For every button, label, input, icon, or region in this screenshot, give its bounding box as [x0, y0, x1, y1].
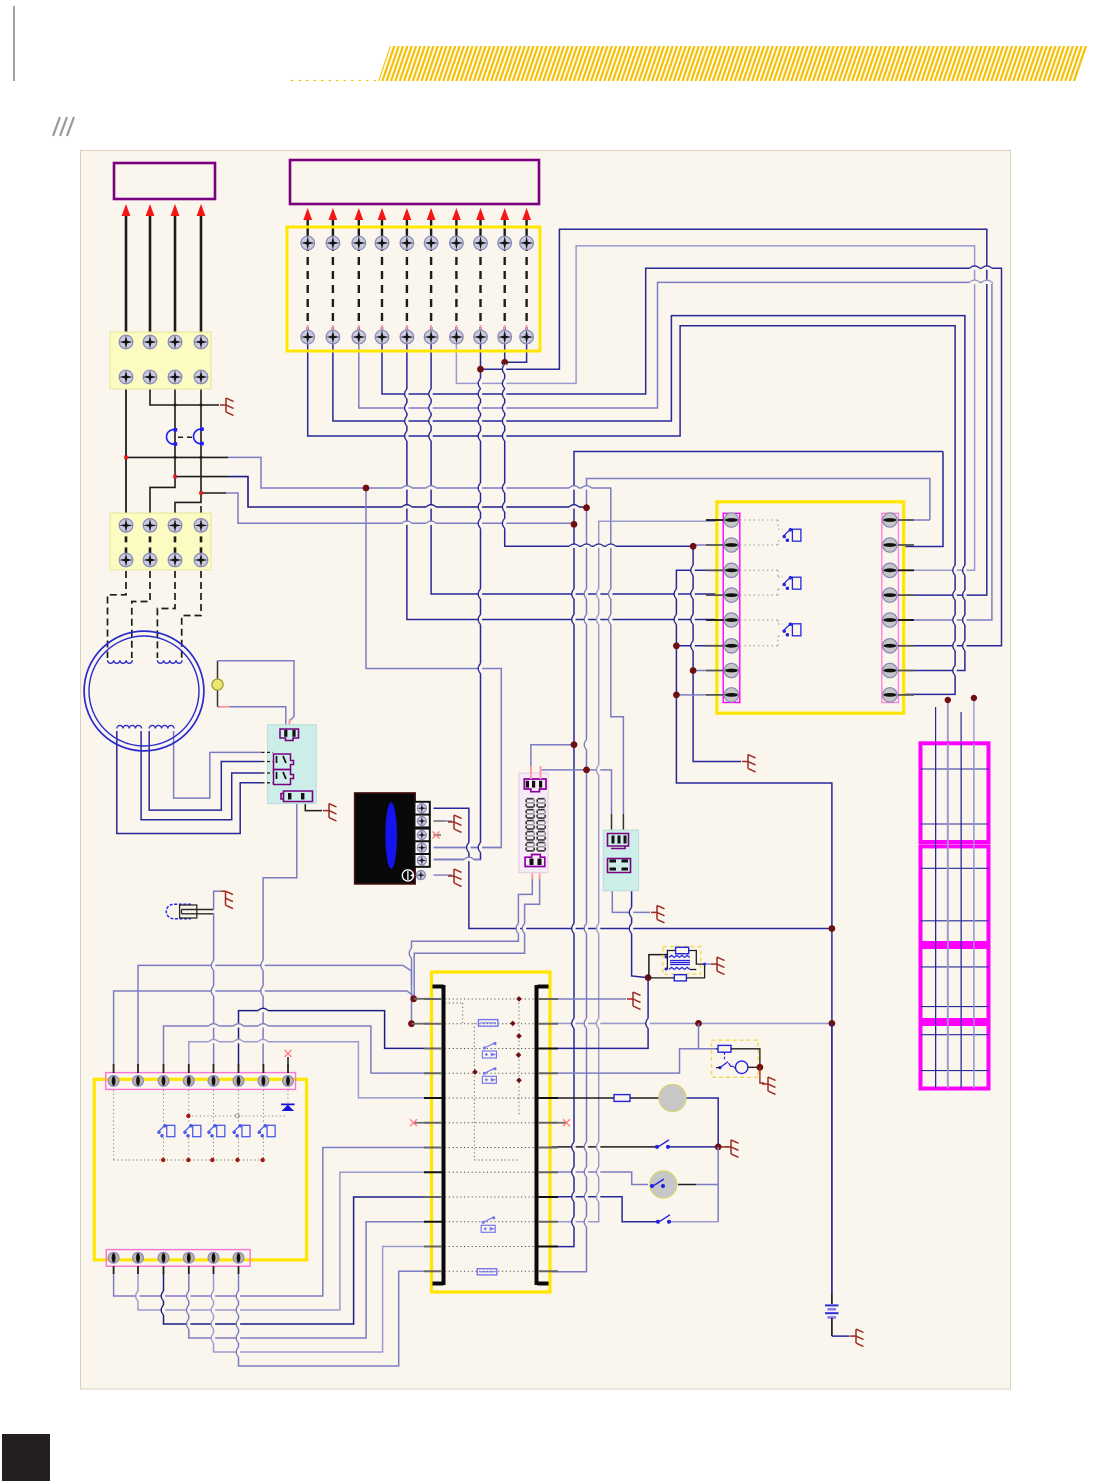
ECU right header bar — [537, 985, 549, 1285]
wire: bus 928 from LCD pin1 — [434, 808, 832, 928]
display top connector — [524, 779, 546, 792]
junction bus1023 horn tap — [695, 1020, 702, 1027]
stator coil top-right — [157, 660, 182, 663]
junction strip1 pin4 tap — [199, 491, 203, 495]
ground G9 — [722, 1146, 729, 1148]
junction relay pin8 node — [673, 692, 680, 699]
junction ECU row1 node — [410, 995, 417, 1002]
wire: strip1 pin3 leg — [150, 377, 175, 525]
wire: node bus A y457 — [126, 456, 228, 458]
wire: bottom box pin3 to ECU row4 — [164, 1026, 433, 1073]
wire: LCD feed riser x367 — [366, 488, 501, 848]
ground G3 — [448, 815, 462, 832]
relay box K1 — [717, 502, 904, 713]
ECU dotted matrix — [445, 999, 536, 1271]
display top leads — [530, 766, 532, 779]
wire: top box pin8 riser — [434, 343, 481, 860]
wire: LCD pin2 ground lead — [434, 820, 446, 822]
wire: T1 output to ground — [705, 963, 711, 965]
header hatch band — [378, 46, 1099, 81]
ground G2 — [742, 755, 756, 772]
ground G8 — [651, 905, 665, 922]
wire: cyan block2 to ignition node — [632, 890, 649, 978]
wire: ECU right row8 dimmer branch — [551, 1172, 648, 1185]
wire: dimmer link down — [717, 1147, 719, 1222]
stator coil bottom-left — [117, 725, 142, 728]
junction ticks strip1 column — [174, 404, 203, 459]
horn switch — [719, 1052, 734, 1068]
headlamp B1 — [659, 1084, 686, 1111]
wire: display pin1 link to V1 — [531, 745, 574, 779]
dimmer lamp B2 — [650, 1171, 677, 1198]
wire: pickup coil loop — [217, 661, 219, 679]
wire: strip2 pin4 stub — [200, 506, 202, 525]
wire: CN1 dashed link — [178, 436, 196, 438]
K1 relay 1 — [783, 529, 801, 542]
wire: bottom box pin2 to ECU — [138, 965, 412, 1066]
nc mark ECU right row6 — [563, 1119, 570, 1126]
arrowheads middle header — [303, 208, 531, 220]
wire: relay pin2 to ground chain x693 — [693, 544, 717, 546]
wire: bottom box pin4 to ECU row5 — [189, 1042, 432, 1098]
wire: strip1 pin4 leg — [175, 377, 201, 525]
wire: horn tap drop — [698, 1023, 700, 1048]
wire: ECU row2 stub — [412, 1023, 433, 1025]
junction ECU row2 node — [408, 1020, 415, 1027]
T1 ballast resistor — [648, 977, 674, 979]
LCD adjuster icon — [402, 870, 413, 881]
wire: bottom box pin8 stub — [287, 1057, 289, 1066]
wire: bus 1023 from ECU — [551, 1022, 832, 1024]
ground G1 — [220, 398, 234, 415]
header box middle — [290, 160, 539, 204]
alternator M1 — [84, 631, 204, 751]
junction table feeds — [945, 695, 978, 703]
wire: ECU right row9 to dip switch — [551, 1197, 657, 1222]
CN-B lower connector — [608, 859, 631, 873]
ground G6 — [221, 891, 233, 908]
regulator lead dashes — [262, 752, 274, 782]
junction bus1023 battery riser — [829, 1020, 836, 1027]
wire: LCD pin4 lead — [434, 847, 502, 849]
wire: ECU right row6 nc stub — [551, 1122, 566, 1124]
header slashes — [53, 117, 74, 136]
wire: bus A continuation y488 — [366, 488, 623, 814]
nc mark LCD pin3 — [433, 832, 440, 839]
control unit ECU — [432, 972, 551, 1292]
junction lamp node — [715, 1144, 722, 1151]
stator coil top-left — [108, 660, 133, 663]
junction bus928 battery riser — [829, 925, 836, 932]
ECU left header bar — [433, 985, 444, 1285]
ground G4 — [448, 869, 462, 886]
display digits — [526, 799, 545, 851]
junction relay pin6 node — [673, 642, 680, 649]
wire: node bus B y477 — [175, 476, 228, 478]
wire: LCD pin6 ground lead — [434, 874, 453, 876]
wire: bottom box pin1 to ECU — [114, 991, 414, 1066]
wire: strip1 pin1 to strip2 pin1 — [125, 377, 127, 525]
wire: ECU right row7 switch to ground node — [551, 1146, 656, 1148]
wire: top box pin6 run to relay pin4 — [431, 343, 717, 594]
junction relay pin2 node — [690, 543, 697, 550]
wire: cyan block2 left lead to ground — [612, 890, 650, 912]
wire: stator leads to regulator block — [117, 731, 262, 834]
CN-B upper connector — [608, 834, 629, 849]
wire: ECU right row3 to ignition node — [551, 978, 648, 1049]
J1 node dots — [161, 1114, 265, 1163]
stator coil bottom-right — [149, 725, 174, 728]
terminal box top middle — [287, 227, 540, 351]
K1 relay 2 — [783, 577, 801, 590]
display bottom connector — [525, 855, 545, 867]
junction bus A x367 — [363, 485, 370, 492]
ground G12 — [850, 1329, 864, 1346]
battery BT1 — [831, 1294, 833, 1305]
page margin rule — [13, 6, 15, 81]
ground G7 — [627, 992, 641, 1009]
wire: V1 long riser x574 — [551, 452, 943, 1247]
wire: V3 long riser x598 — [551, 521, 717, 1222]
resistor R-lamp — [614, 1095, 630, 1102]
wire hops — [136, 266, 992, 1357]
junction display pin2 node — [583, 767, 590, 774]
wire: ECU row1 stub — [414, 998, 432, 1000]
ground G10 — [711, 957, 725, 974]
LCD terminal strip — [415, 802, 430, 880]
wire: ECU right row5 headlamp branch — [551, 1097, 614, 1099]
T1 windings — [665, 955, 690, 970]
wire: display pin2 link to cyan block2 — [541, 770, 612, 814]
wire: LCD pin3 nc stub — [434, 834, 442, 836]
wire: LCD pin5 lead — [434, 859, 481, 861]
pickup trigger P1 — [212, 679, 223, 690]
horn resistor — [716, 1048, 718, 1050]
J1 bottom pin row — [106, 1250, 250, 1267]
wire: display bottom lead right — [414, 871, 539, 999]
nc mark box pin8 — [285, 1050, 292, 1057]
wire: relay pin7 tap — [693, 670, 717, 672]
wire: top box pin5 run to relay pin5 — [407, 343, 717, 620]
junction V2 bus B — [583, 504, 590, 511]
wire: display bottom lead left — [412, 871, 533, 1024]
J1 relays — [158, 1125, 275, 1137]
ground G5 — [323, 804, 337, 821]
wire group: left header arrows to fuse strip — [126, 216, 201, 342]
ignition coil T1 — [663, 947, 701, 975]
junction display pin1 node — [571, 741, 578, 748]
K1 right pin column — [882, 513, 899, 702]
wire: bottom box pin6 to ECU row3 — [239, 1011, 433, 1066]
fuse strip2 — [110, 513, 211, 570]
horn buzzer — [736, 1061, 748, 1073]
junction V1 bus C — [571, 521, 578, 528]
wire: horn ground drop — [760, 1067, 764, 1083]
regulator contact set — [274, 754, 294, 785]
K1 relay 3 — [783, 623, 801, 636]
junction pin9-10 node — [501, 359, 508, 366]
T1 primary resistor — [667, 951, 675, 955]
wire: top box pin9-10 drop — [505, 343, 527, 362]
junction strip1 pin3 tap — [173, 475, 177, 479]
K1 dotted links — [740, 520, 783, 646]
header box left — [114, 163, 215, 199]
junction relay pin7 node — [690, 667, 697, 674]
ground G11 — [762, 1077, 776, 1094]
pilot lamp L1 — [166, 904, 191, 918]
wire: relay pin3 to battery feed x676 — [676, 570, 832, 1293]
load table — [921, 743, 989, 1088]
ECU relay 1 — [482, 1043, 496, 1059]
ECU node dots — [472, 996, 522, 1083]
wire group: bottom box lower fan to ECU left — [114, 1148, 432, 1367]
K1 left pin column — [723, 513, 740, 702]
regulator block CN-A — [268, 725, 317, 804]
wire: pin8 branch to nested loop — [481, 229, 987, 595]
ECU relay 3 — [481, 1217, 495, 1233]
J1 diode — [281, 1103, 295, 1105]
speed display D1 — [519, 773, 548, 873]
wire: top box pin7 elbow — [456, 246, 974, 570]
diagram panel — [81, 151, 1011, 1390]
ECU pin stubs — [424, 999, 558, 1271]
LCD module — [355, 793, 416, 884]
wire: ECU right row1 to ground — [551, 998, 626, 1000]
arrowheads left header — [122, 204, 206, 216]
wire: pilot lamp leads — [182, 909, 214, 911]
horn box H1 — [712, 1040, 759, 1077]
wire: pilot lamp drop to box pin5 — [213, 913, 215, 1066]
wire: display lead pink tips — [531, 871, 533, 879]
wire: relay pin8 tap — [676, 694, 716, 696]
junction pin8 tap — [477, 366, 484, 373]
fuse strip1 — [110, 332, 211, 389]
wire: battery to ground — [832, 1335, 850, 1337]
wire: ECU row6 nc stub — [414, 1122, 433, 1124]
page number block — [2, 1434, 50, 1481]
regulator bottom connector — [281, 791, 313, 802]
connector block CN-B — [603, 830, 638, 891]
ECU relay 2 — [482, 1068, 496, 1084]
nc mark ECU row6 — [410, 1119, 417, 1126]
junction strip1 pin1 tap — [124, 456, 128, 460]
wire: regulator bottom-right to ground — [305, 803, 322, 811]
wire group: middle header arrows — [308, 219, 527, 243]
T1 secondary leads — [666, 955, 668, 970]
switch SW1 — [656, 1140, 670, 1148]
wire group: fuse strip1 internals and down leads — [126, 342, 201, 377]
junction box J1 — [94, 1079, 306, 1260]
wire group: top box pins 1-4 elbows to right margin — [308, 268, 1002, 694]
wire group: nested loop risers to table — [936, 698, 974, 1086]
wire: motor feeds from strip2 — [108, 560, 202, 658]
wire: ECU right row4 to horn box — [551, 1049, 716, 1073]
J1 interior dotted — [114, 1090, 288, 1160]
wire: regulator bottom-left long run — [263, 803, 297, 1066]
wire: ignition node to coil — [648, 955, 667, 978]
wire: node bus C y493 — [201, 492, 226, 494]
regulator top connector — [280, 729, 299, 741]
switch SW2 — [657, 1215, 671, 1223]
J1 top pin row — [106, 1073, 296, 1090]
ECU resistor top — [478, 1020, 498, 1027]
wire: battery positive riser — [831, 1023, 833, 1293]
wire: strip1 pin2 to chassis ground — [150, 377, 219, 405]
wire: V2 long riser x587 — [899, 519, 930, 521]
junction ignition node — [645, 974, 652, 981]
ECU resistor bottom — [477, 1269, 497, 1275]
junction horn node — [757, 1064, 764, 1071]
connector pair CN1 — [167, 427, 204, 445]
header dotted leader — [291, 80, 378, 82]
wire: pickup red tips — [289, 719, 291, 727]
wire: relay pin6 tap — [676, 645, 716, 647]
switch SW3 inside B2 — [651, 1179, 665, 1187]
